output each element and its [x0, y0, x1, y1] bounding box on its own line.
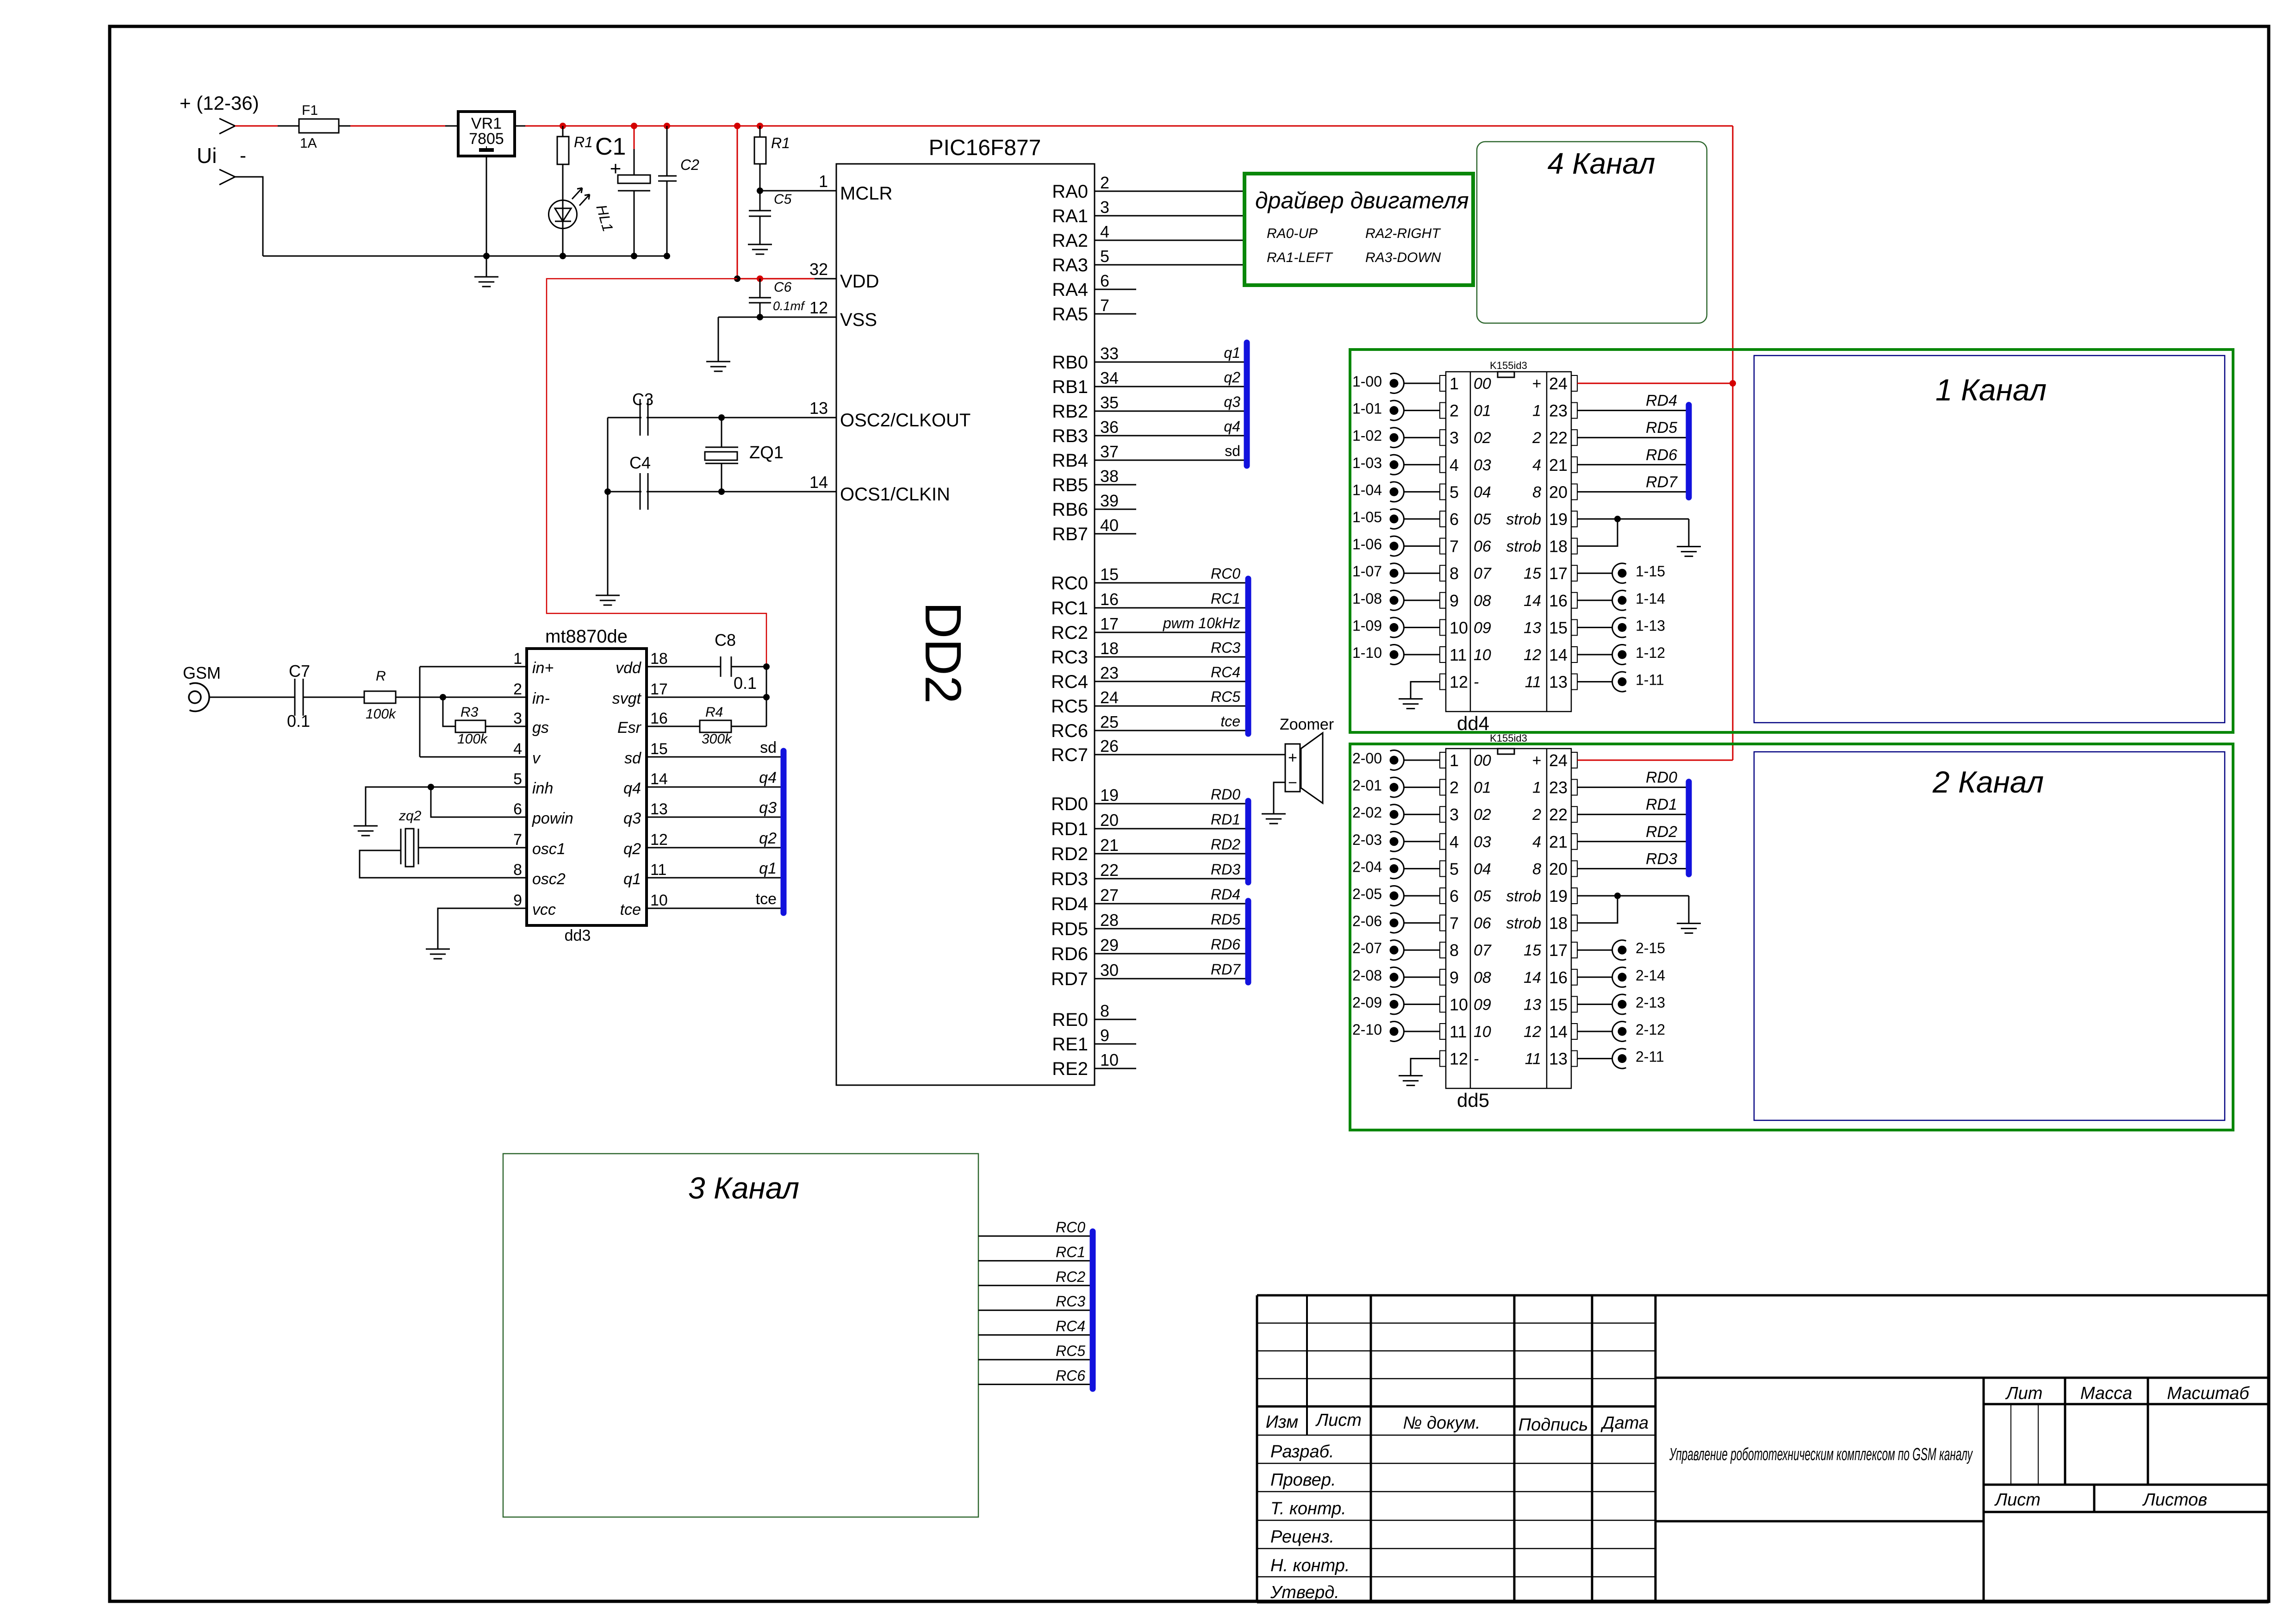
- svg-text:q3: q3: [623, 810, 641, 827]
- svg-text:09: 09: [1474, 619, 1491, 637]
- dd4 pin 13: [1571, 674, 1577, 690]
- capacitor C8: [647, 666, 721, 668]
- svg-text:RD7: RD7: [1051, 969, 1088, 989]
- svg-text:18: 18: [1549, 537, 1568, 556]
- wire powin: [431, 787, 527, 817]
- svg-text:28: 28: [1100, 911, 1119, 930]
- svg-text:1-06: 1-06: [1352, 536, 1382, 553]
- svg-text:10: 10: [650, 892, 668, 909]
- svg-text:05: 05: [1474, 887, 1491, 905]
- svg-text:0.1mf: 0.1mf: [773, 299, 805, 313]
- svg-text:14: 14: [809, 473, 828, 492]
- svg-text:v: v: [532, 750, 541, 767]
- svg-text:2 Канал: 2 Канал: [1932, 765, 2044, 799]
- LED light arrows: [572, 188, 582, 199]
- dd5 pin 12: [1440, 1051, 1446, 1067]
- connector 2-03: [1390, 831, 1404, 851]
- junction dot C2: [664, 253, 670, 259]
- capacitor C5: [759, 191, 761, 211]
- svg-text:1-13: 1-13: [1636, 617, 1665, 634]
- svg-text:2: 2: [1532, 806, 1541, 824]
- fuse F1: [299, 119, 339, 133]
- wire 1-15: [1577, 573, 1612, 574]
- junction dot VSS: [757, 314, 763, 320]
- svg-text:2-15: 2-15: [1636, 940, 1665, 956]
- wire 2-08 to pin: [1404, 976, 1440, 978]
- dd4 pin 6: [1440, 511, 1446, 527]
- svg-text:07: 07: [1474, 565, 1492, 582]
- svg-text:C1: C1: [595, 133, 626, 160]
- svg-text:RC7: RC7: [1051, 745, 1088, 765]
- svg-text:+ (12-36): + (12-36): [180, 92, 259, 114]
- svg-text:13: 13: [1524, 996, 1541, 1013]
- svg-text:7: 7: [1100, 296, 1109, 315]
- junction dot in- node: [440, 694, 446, 700]
- wire 2-05 to pin: [1404, 895, 1440, 897]
- svg-text:1-15: 1-15: [1636, 563, 1665, 580]
- svg-text:0.1: 0.1: [287, 712, 310, 731]
- wire dd5 pin 23 RD0: [1577, 787, 1686, 788]
- bus channel3 blue: [1090, 1231, 1096, 1389]
- svg-text:15: 15: [1549, 618, 1568, 637]
- wire OSC2 pin 13: [608, 417, 836, 418]
- svg-text:1 Канал: 1 Канал: [1935, 373, 2047, 407]
- dd5 pin 13: [1571, 1051, 1577, 1067]
- ground symbol vcc: [426, 949, 450, 950]
- svg-text:24: 24: [1549, 374, 1568, 393]
- svg-text:17: 17: [1549, 941, 1568, 960]
- wire 1-13: [1577, 627, 1612, 628]
- svg-text:q3: q3: [1224, 394, 1240, 410]
- svg-text:100k: 100k: [457, 731, 488, 747]
- junction red dot C2: [664, 123, 670, 129]
- connector 1-14: [1612, 590, 1626, 610]
- svg-text:Утверд.: Утверд.: [1270, 1583, 1339, 1602]
- svg-text:RD5: RD5: [1051, 919, 1088, 939]
- svg-text:12: 12: [1450, 673, 1468, 692]
- svg-text:RC0: RC0: [1211, 565, 1240, 582]
- svg-text:13: 13: [1549, 1049, 1568, 1068]
- svg-text:32: 32: [809, 260, 828, 279]
- svg-text:2-06: 2-06: [1352, 913, 1382, 930]
- bus RD0-RD3 blue: [1245, 801, 1251, 882]
- svg-text:Реценз.: Реценз.: [1270, 1527, 1334, 1547]
- wire dd3 q2 to bus: [647, 847, 781, 849]
- crystal ZQ1: [721, 418, 722, 447]
- svg-text:4: 4: [1450, 832, 1459, 851]
- svg-text:2: 2: [1100, 173, 1109, 192]
- wire dd3 tce to bus: [647, 908, 781, 909]
- svg-text:tce: tce: [1220, 713, 1240, 730]
- wire 2-10 to pin: [1404, 1031, 1440, 1032]
- wire svgt: [647, 697, 766, 698]
- wire to ground OSC: [607, 492, 609, 595]
- svg-text:F1: F1: [302, 103, 318, 118]
- svg-text:RD1: RD1: [1211, 811, 1240, 828]
- input connector arrow -: [219, 169, 235, 185]
- svg-text:5: 5: [1100, 247, 1109, 266]
- svg-text:RC3: RC3: [1211, 639, 1240, 656]
- wire R1 to MCLR node: [759, 164, 761, 191]
- svg-text:20: 20: [1100, 811, 1119, 830]
- svg-text:Разраб.: Разраб.: [1270, 1442, 1334, 1462]
- svg-text:C8: C8: [715, 631, 736, 650]
- svg-text:драйвер двигателя: драйвер двигателя: [1255, 187, 1469, 213]
- dd4 pin 8: [1440, 565, 1446, 581]
- svg-text:R1: R1: [574, 134, 593, 150]
- svg-text:RA4: RA4: [1052, 280, 1088, 300]
- svg-text:04: 04: [1474, 860, 1491, 878]
- connector 2-10: [1390, 1022, 1404, 1042]
- dd4 pin 24: [1571, 375, 1577, 391]
- junction red dot R1-MCLR branch: [757, 123, 763, 129]
- dd4 pin 19: [1571, 511, 1577, 527]
- svg-text:18: 18: [650, 650, 668, 668]
- svg-text:K155id3: K155id3: [1490, 360, 1527, 371]
- capacitor C3: [640, 399, 641, 436]
- svg-text:4: 4: [1532, 456, 1541, 474]
- svg-text:RE2: RE2: [1052, 1059, 1088, 1079]
- wire dd3 q1 to bus: [647, 877, 781, 879]
- junction dot inh-powin: [428, 784, 434, 790]
- wire RC1 channel3: [978, 1260, 1090, 1262]
- wire 2-13: [1577, 1004, 1612, 1005]
- dd4 pin 18: [1571, 538, 1577, 554]
- ground symbol below VR1: [486, 256, 487, 277]
- input connector arrow +: [219, 119, 235, 134]
- svg-text:Масса: Масса: [2080, 1384, 2132, 1403]
- svg-text:RE0: RE0: [1052, 1010, 1088, 1030]
- svg-text:03: 03: [1474, 456, 1491, 474]
- dd5 pin 3: [1440, 806, 1446, 822]
- wire 1-04 to pin: [1404, 491, 1440, 493]
- svg-text:№ докум.: № докум.: [1403, 1413, 1480, 1433]
- channel 3 box: [503, 1154, 978, 1517]
- svg-text:RC4: RC4: [1211, 664, 1240, 681]
- svg-text:13: 13: [650, 800, 668, 818]
- svg-text:RD6: RD6: [1211, 936, 1240, 953]
- wire 1-05 to pin: [1404, 518, 1440, 520]
- ground symbol inh: [354, 825, 378, 827]
- svg-text:RD4: RD4: [1211, 886, 1240, 903]
- svg-text:RA1-LEFT: RA1-LEFT: [1267, 250, 1333, 265]
- svg-text:GSM: GSM: [183, 663, 221, 682]
- wire 1-02 to pin: [1404, 437, 1440, 438]
- svg-text:C4: C4: [629, 453, 651, 472]
- svg-text:Управление робототехническим к: Управление робототехническим комплексом …: [1669, 1445, 1973, 1464]
- svg-text:C5: C5: [774, 192, 792, 207]
- IC DD2 PIC16F877 body: [836, 164, 1095, 1085]
- svg-text:21: 21: [1549, 456, 1568, 475]
- junction dot VDD-left: [734, 275, 740, 282]
- connector 1-05: [1390, 509, 1404, 529]
- dd5 pin 19: [1571, 888, 1577, 904]
- wire dd5 pin 20 RD3: [1577, 868, 1686, 869]
- svg-text:RD6: RD6: [1646, 446, 1677, 464]
- wire RC2 channel3: [978, 1285, 1090, 1286]
- bus dd3 outputs blue: [781, 751, 787, 913]
- svg-text:vcc: vcc: [532, 901, 556, 918]
- svg-text:2: 2: [1450, 778, 1459, 797]
- svg-text:Лист: Лист: [1994, 1490, 2041, 1510]
- connector GSM circle: [190, 683, 210, 711]
- svg-text:8: 8: [1532, 860, 1541, 878]
- svg-text:RB6: RB6: [1052, 500, 1088, 520]
- svg-text:1: 1: [819, 172, 828, 191]
- svg-text:RC4: RC4: [1051, 672, 1088, 692]
- IC dd5 body: [1446, 749, 1571, 1088]
- svg-text:1-04: 1-04: [1352, 481, 1382, 498]
- svg-text:C6: C6: [774, 280, 792, 295]
- svg-text:6: 6: [513, 800, 522, 818]
- svg-text:RD0: RD0: [1051, 794, 1088, 814]
- svg-text:17: 17: [1549, 564, 1568, 583]
- svg-text:8: 8: [513, 861, 522, 879]
- svg-text:4: 4: [1450, 456, 1459, 475]
- connector 2-02: [1390, 805, 1404, 824]
- svg-text:RC6: RC6: [1056, 1367, 1085, 1384]
- svg-text:tce: tce: [620, 901, 641, 918]
- wire 2-02 to pin: [1404, 814, 1440, 815]
- svg-text:1-02: 1-02: [1352, 427, 1382, 444]
- dd4 pin 5: [1440, 484, 1446, 500]
- svg-text:2-12: 2-12: [1636, 1021, 1665, 1038]
- svg-text:2-00: 2-00: [1352, 750, 1382, 767]
- svg-text:1-11: 1-11: [1636, 672, 1664, 688]
- ground symbol strob dd4: [1677, 546, 1701, 547]
- IC dd4 top notch: [1498, 372, 1514, 377]
- svg-text:+: +: [1532, 375, 1541, 393]
- dd4 pin 2: [1440, 403, 1446, 418]
- svg-text:RD2: RD2: [1211, 836, 1240, 853]
- svg-text:q1: q1: [1224, 344, 1240, 361]
- svg-text:RC2: RC2: [1051, 623, 1088, 643]
- connector 2-01: [1390, 777, 1404, 797]
- wire RC6 channel3: [978, 1384, 1090, 1385]
- wire dd4 strob 19: [1577, 518, 1689, 520]
- wire 2-04 to pin: [1404, 868, 1440, 869]
- svg-text:19: 19: [1549, 887, 1568, 906]
- svg-text:Ui: Ui: [197, 144, 217, 168]
- svg-text:2-01: 2-01: [1352, 777, 1382, 794]
- wire 2-12: [1577, 1031, 1612, 1032]
- svg-text:37: 37: [1100, 442, 1119, 461]
- svg-text:06: 06: [1474, 915, 1491, 932]
- svg-text:05: 05: [1474, 511, 1491, 528]
- junction dot C1: [631, 253, 637, 259]
- connector 1-12: [1612, 645, 1626, 665]
- wire 2-03 to pin: [1404, 841, 1440, 842]
- svg-text:pwm 10kHz: pwm 10kHz: [1163, 615, 1240, 631]
- svg-text:RC3: RC3: [1051, 647, 1088, 668]
- svg-text:15: 15: [1524, 565, 1541, 582]
- svg-text:23: 23: [1549, 401, 1568, 420]
- svg-text:9: 9: [1450, 968, 1459, 987]
- dd4 pin 11: [1440, 647, 1446, 662]
- svg-text:20: 20: [1549, 482, 1568, 501]
- svg-text:35: 35: [1100, 393, 1119, 412]
- svg-text:RC1: RC1: [1211, 590, 1240, 607]
- bus RC blue: [1245, 579, 1251, 734]
- svg-text:11: 11: [1450, 645, 1467, 664]
- wire wrap in+ and v: [419, 667, 421, 757]
- wire 2-15: [1577, 949, 1612, 951]
- connector 2-07: [1390, 940, 1404, 960]
- svg-text:19: 19: [1100, 786, 1119, 805]
- svg-text:13: 13: [1549, 673, 1568, 692]
- svg-text:4: 4: [1532, 833, 1541, 851]
- svg-text:sd: sd: [1225, 443, 1240, 459]
- wire 2-14: [1577, 976, 1612, 978]
- wire RC0 channel3: [978, 1236, 1090, 1237]
- wire VR1 output red rail: [515, 125, 525, 127]
- dd5 pin 2: [1440, 780, 1446, 795]
- svg-text:13: 13: [809, 399, 828, 418]
- svg-text:12: 12: [1450, 1049, 1468, 1068]
- dd5 pin 22: [1571, 806, 1577, 822]
- dd4 pin 16: [1571, 593, 1577, 608]
- ground symbol VSS: [706, 361, 730, 362]
- svg-text:1: 1: [1532, 779, 1541, 797]
- svg-text:2: 2: [1450, 401, 1459, 420]
- wire 2-07 to pin: [1404, 949, 1440, 951]
- ground symbol strob dd5: [1677, 923, 1701, 924]
- svg-text:13: 13: [1524, 619, 1541, 637]
- svg-text:34: 34: [1100, 369, 1119, 387]
- svg-text:26: 26: [1100, 737, 1119, 756]
- wire 1-11: [1577, 681, 1612, 682]
- dd4 pin 17: [1571, 565, 1577, 581]
- svg-text:22: 22: [1549, 428, 1568, 447]
- wire VDD red: [737, 278, 815, 280]
- wire dd5 pin12 ground: [1411, 1059, 1440, 1075]
- wire 1-07 to pin: [1404, 573, 1440, 574]
- channel group 1 green box: [1350, 350, 2233, 732]
- svg-text:2-05: 2-05: [1352, 886, 1382, 902]
- svg-text:10: 10: [1474, 646, 1491, 664]
- svg-text:Масштаб: Масштаб: [2167, 1384, 2250, 1403]
- svg-text:2: 2: [513, 681, 522, 698]
- svg-text:−: −: [1288, 774, 1297, 792]
- svg-text:RC5: RC5: [1211, 688, 1240, 705]
- svg-text:powin: powin: [532, 810, 573, 827]
- dd4 pin 4: [1440, 457, 1446, 473]
- svg-text:39: 39: [1100, 491, 1119, 510]
- wire C7 to R: [303, 697, 364, 698]
- bus RB blue: [1244, 343, 1250, 466]
- dd5 pin 10: [1440, 996, 1446, 1012]
- svg-text:9: 9: [1450, 591, 1459, 610]
- wire RC4 channel3: [978, 1334, 1090, 1336]
- svg-text:1A: 1A: [300, 136, 317, 151]
- svg-text:15: 15: [1549, 995, 1568, 1014]
- zoomer speaker horn: [1301, 733, 1323, 803]
- svg-text:14: 14: [1524, 969, 1541, 987]
- svg-text:20: 20: [1549, 859, 1568, 878]
- svg-text:33: 33: [1100, 344, 1119, 363]
- svg-text:02: 02: [1474, 429, 1491, 447]
- svg-text:1-09: 1-09: [1352, 617, 1382, 634]
- dd5 pin 17: [1571, 942, 1577, 958]
- svg-text:24: 24: [1549, 751, 1568, 770]
- svg-text:11: 11: [1525, 1050, 1541, 1068]
- svg-text:23: 23: [1100, 663, 1119, 682]
- svg-text:00: 00: [1474, 752, 1491, 769]
- svg-text:3 Канал: 3 Канал: [688, 1171, 799, 1205]
- svg-text:300k: 300k: [702, 731, 733, 747]
- connector 1-00: [1390, 374, 1404, 394]
- svg-text:2-10: 2-10: [1352, 1021, 1382, 1038]
- svg-text:6: 6: [1450, 887, 1459, 906]
- svg-text:1-03: 1-03: [1352, 455, 1382, 471]
- ground symbol below C5: [748, 244, 772, 245]
- dd4 pin 22: [1571, 430, 1577, 445]
- junction dot VR1 ground: [483, 253, 490, 259]
- svg-text:Т. контр.: Т. контр.: [1270, 1499, 1346, 1518]
- wire 2-09 to pin: [1404, 1004, 1440, 1005]
- wire RC3 channel3: [978, 1310, 1090, 1311]
- wire 2-01 to pin: [1404, 787, 1440, 788]
- svg-text:strob: strob: [1506, 538, 1541, 556]
- svg-text:2-07: 2-07: [1352, 940, 1382, 956]
- wire zoomer minus to ground: [1274, 782, 1285, 813]
- svg-text:RD7: RD7: [1646, 473, 1678, 491]
- svg-text:14: 14: [1549, 1022, 1568, 1041]
- svg-text:2-09: 2-09: [1352, 994, 1382, 1011]
- connector 2-11: [1612, 1049, 1626, 1068]
- svg-text:14: 14: [1524, 592, 1541, 610]
- wire dd3 q4 to bus: [647, 787, 781, 788]
- svg-text:11: 11: [1525, 674, 1541, 691]
- svg-text:4: 4: [513, 740, 522, 758]
- dd5 pin 14: [1571, 1024, 1577, 1039]
- svg-text:27: 27: [1100, 886, 1119, 905]
- svg-text:5: 5: [1450, 482, 1459, 501]
- svg-text:RD4: RD4: [1646, 392, 1677, 410]
- connector 1-15: [1612, 563, 1626, 583]
- svg-text:inh: inh: [532, 780, 553, 797]
- wire 2-00 to pin: [1404, 760, 1440, 761]
- wire 1-08 to pin: [1404, 600, 1440, 601]
- svg-text:q4: q4: [759, 769, 777, 787]
- dd5 pin 20: [1571, 861, 1577, 876]
- wire R to in-: [396, 697, 527, 698]
- svg-text:RC0: RC0: [1051, 573, 1088, 593]
- channel group 2 green box: [1350, 744, 2233, 1130]
- svg-text:17: 17: [650, 681, 668, 698]
- wire 1-01 to pin: [1404, 410, 1440, 411]
- svg-text:Подпись: Подпись: [1518, 1415, 1588, 1435]
- dd5 pin 8: [1440, 942, 1446, 958]
- svg-text:21: 21: [1549, 832, 1568, 851]
- svg-text:q4: q4: [1224, 418, 1240, 435]
- svg-text:R: R: [376, 668, 386, 684]
- connector 2-06: [1390, 913, 1404, 933]
- svg-text:Лист: Лист: [1315, 1411, 1362, 1430]
- svg-text:+: +: [1532, 752, 1541, 769]
- junction dot svgt: [763, 694, 770, 700]
- svg-text:VDD: VDD: [840, 271, 879, 292]
- svg-text:Лит: Лит: [2005, 1384, 2043, 1403]
- svg-text:q4: q4: [623, 780, 641, 797]
- crystal zq2: [400, 829, 402, 864]
- svg-text:in+: in+: [532, 659, 554, 677]
- svg-text:q2: q2: [759, 830, 777, 847]
- svg-text:strob: strob: [1506, 887, 1541, 905]
- junction dot OSC left: [604, 488, 611, 495]
- svg-text:RD4: RD4: [1051, 894, 1088, 914]
- svg-text:2: 2: [1532, 429, 1541, 447]
